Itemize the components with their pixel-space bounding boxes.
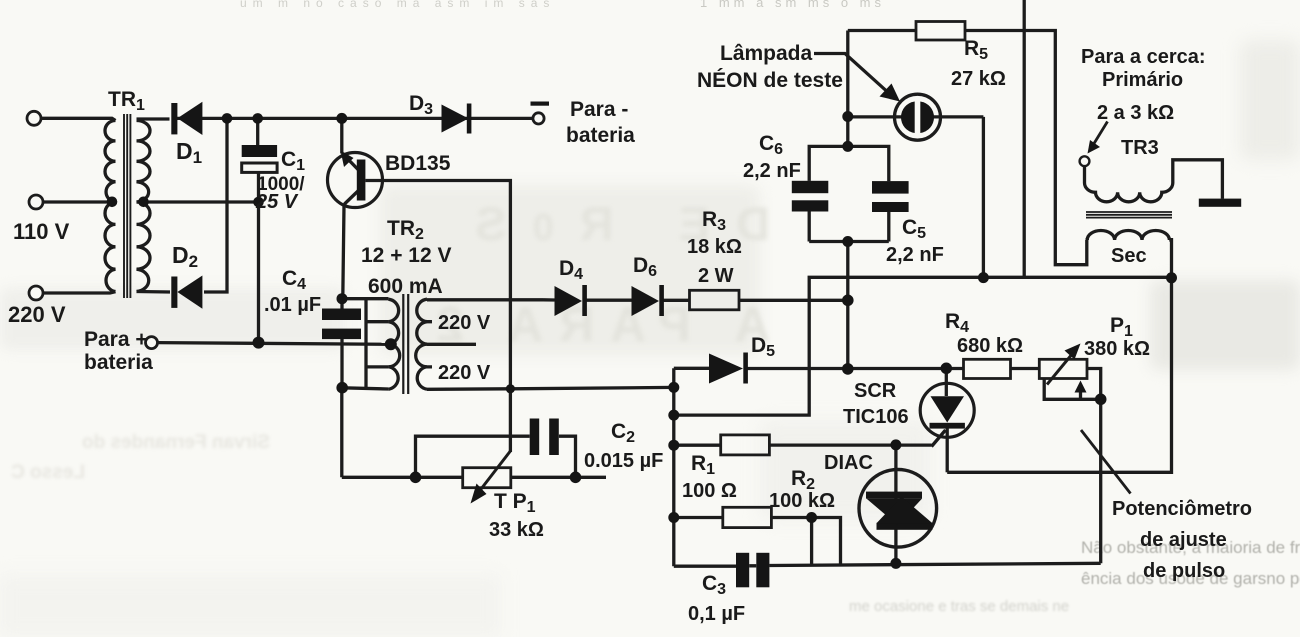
- svg-text:C4: C4: [282, 267, 306, 293]
- svg-text:TR3: TR3: [1121, 137, 1159, 159]
- svg-text:110 V: 110 V: [13, 219, 70, 244]
- svg-text:2,2 nF: 2,2 nF: [743, 160, 801, 182]
- svg-text:100 Ω: 100 Ω: [682, 480, 737, 502]
- svg-text:D4: D4: [559, 257, 583, 283]
- svg-text:D6: D6: [633, 254, 657, 280]
- svg-text:R5: R5: [964, 37, 988, 63]
- svg-text:P1: P1: [1110, 314, 1133, 340]
- svg-text:R1: R1: [691, 452, 715, 478]
- svg-text:18 kΩ: 18 kΩ: [687, 236, 742, 258]
- svg-text:220 V: 220 V: [8, 302, 66, 327]
- svg-text:220 V: 220 V: [438, 362, 491, 384]
- svg-text:600 mA: 600 mA: [368, 275, 443, 298]
- svg-text:DIAC: DIAC: [824, 452, 873, 474]
- svg-text:220 V: 220 V: [438, 312, 491, 334]
- svg-text:C3: C3: [702, 572, 726, 598]
- svg-text:C1: C1: [281, 148, 305, 174]
- svg-text:de ajuste: de ajuste: [1140, 529, 1227, 551]
- svg-text:2,2 nF: 2,2 nF: [886, 244, 944, 266]
- svg-text:TR1: TR1: [108, 88, 145, 114]
- svg-text:R4: R4: [945, 310, 969, 336]
- svg-text:Para +: Para +: [84, 328, 148, 351]
- svg-text:T P1: T P1: [494, 490, 536, 516]
- svg-text:D2: D2: [172, 242, 198, 271]
- svg-text:25 V: 25 V: [255, 191, 299, 213]
- svg-text:680 kΩ: 680 kΩ: [957, 335, 1023, 357]
- svg-text:27 kΩ: 27 kΩ: [951, 68, 1006, 90]
- svg-text:C6: C6: [759, 132, 783, 158]
- svg-text:SCR: SCR: [854, 380, 897, 402]
- svg-text:bateria: bateria: [84, 351, 153, 374]
- svg-text:2 a 3 kΩ: 2 a 3 kΩ: [1097, 102, 1174, 124]
- svg-text:TIC106: TIC106: [843, 406, 909, 428]
- svg-text:Sec: Sec: [1111, 245, 1147, 267]
- svg-text:de pulso: de pulso: [1143, 560, 1225, 582]
- svg-text:12 + 12 V: 12 + 12 V: [361, 244, 452, 267]
- svg-text:Para a cerca:: Para a cerca:: [1081, 46, 1206, 68]
- svg-text:D5: D5: [751, 334, 775, 360]
- svg-text:D1: D1: [176, 138, 202, 167]
- svg-text:2 W: 2 W: [698, 265, 734, 287]
- svg-text:bateria: bateria: [566, 124, 635, 147]
- svg-text:R3: R3: [702, 208, 726, 234]
- svg-text:Potenciômetro: Potenciômetro: [1112, 498, 1252, 520]
- svg-text:.01 µF: .01 µF: [264, 294, 321, 316]
- svg-text:380 kΩ: 380 kΩ: [1084, 338, 1150, 360]
- svg-text:NÉON de teste: NÉON de teste: [697, 69, 843, 92]
- svg-text:C5: C5: [902, 216, 926, 242]
- svg-text:TR2: TR2: [387, 217, 424, 243]
- svg-text:0,1 µF: 0,1 µF: [688, 603, 745, 625]
- svg-text:Primário: Primário: [1102, 69, 1183, 91]
- svg-text:Para -: Para -: [570, 98, 628, 121]
- svg-text:100 kΩ: 100 kΩ: [769, 490, 835, 512]
- svg-text:Lâmpada: Lâmpada: [720, 42, 813, 65]
- svg-text:C2: C2: [611, 420, 635, 446]
- svg-text:D3: D3: [409, 92, 433, 118]
- svg-text:0.015 µF: 0.015 µF: [584, 450, 663, 472]
- svg-text:33 kΩ: 33 kΩ: [489, 519, 544, 541]
- svg-text:BD135: BD135: [385, 152, 451, 175]
